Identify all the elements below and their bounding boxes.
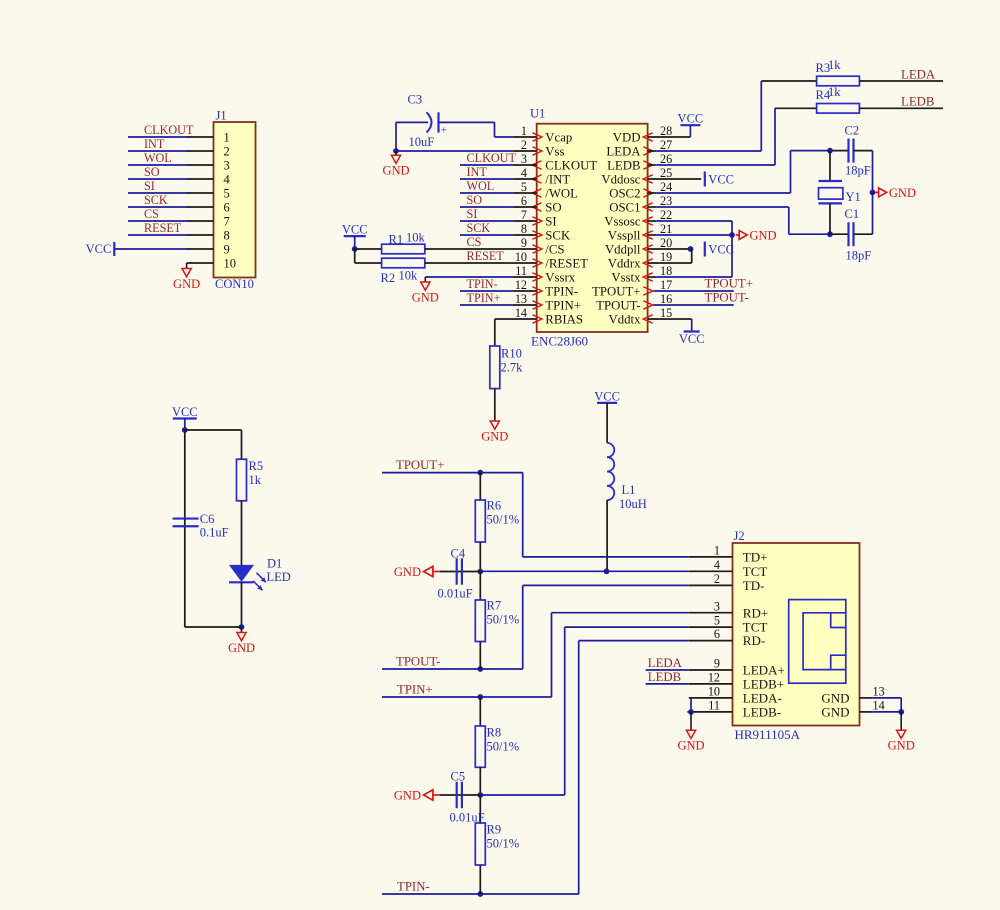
svg-text:26: 26 bbox=[660, 152, 672, 166]
svg-text:50/1%: 50/1% bbox=[487, 513, 520, 527]
svg-text:1: 1 bbox=[714, 544, 720, 558]
svg-text:C6: C6 bbox=[200, 512, 215, 526]
svg-text:GND: GND bbox=[382, 164, 409, 178]
svg-text:TCT: TCT bbox=[743, 564, 768, 579]
svg-text:2.7k: 2.7k bbox=[501, 361, 524, 375]
svg-text:LED: LED bbox=[267, 570, 291, 584]
svg-text:/CS: /CS bbox=[545, 242, 564, 256]
svg-text:24: 24 bbox=[660, 180, 672, 194]
svg-text:25: 25 bbox=[660, 166, 672, 180]
svg-text:R7: R7 bbox=[487, 599, 502, 613]
svg-text:17: 17 bbox=[660, 278, 672, 292]
svg-text:1k: 1k bbox=[828, 58, 841, 72]
svg-text:9: 9 bbox=[224, 242, 230, 256]
svg-text:CLKOUT: CLKOUT bbox=[467, 151, 517, 165]
svg-text:R8: R8 bbox=[487, 726, 502, 740]
svg-text:OSC1: OSC1 bbox=[609, 200, 640, 214]
svg-text:TPOUT-: TPOUT- bbox=[705, 291, 749, 305]
svg-text:22: 22 bbox=[660, 208, 672, 222]
svg-text:Vddpll: Vddpll bbox=[605, 242, 641, 256]
svg-text:SCK: SCK bbox=[467, 221, 491, 235]
svg-text:Vssrx: Vssrx bbox=[545, 270, 575, 284]
svg-text:LEDA: LEDA bbox=[648, 656, 683, 670]
svg-text:2: 2 bbox=[714, 572, 720, 586]
svg-text:R10: R10 bbox=[501, 347, 522, 361]
svg-text:SI: SI bbox=[545, 214, 556, 228]
svg-text:21: 21 bbox=[660, 222, 672, 236]
svg-text:Vssosc: Vssosc bbox=[604, 214, 641, 228]
svg-text:50/1%: 50/1% bbox=[487, 740, 520, 754]
svg-text:+: + bbox=[441, 125, 447, 137]
svg-text:CLKOUT: CLKOUT bbox=[545, 158, 597, 172]
svg-text:WOL: WOL bbox=[467, 179, 495, 193]
svg-text:SO: SO bbox=[545, 200, 561, 214]
svg-text:CON10: CON10 bbox=[215, 277, 254, 291]
svg-text:5: 5 bbox=[714, 614, 720, 628]
svg-text:GND: GND bbox=[394, 789, 421, 803]
svg-text:0.01uF: 0.01uF bbox=[438, 587, 473, 601]
svg-text:TPOUT+: TPOUT+ bbox=[396, 458, 444, 472]
svg-text:LEDA-: LEDA- bbox=[743, 691, 782, 706]
svg-text:SCK: SCK bbox=[545, 228, 571, 242]
svg-text:13: 13 bbox=[515, 292, 527, 306]
svg-text:SO: SO bbox=[467, 193, 483, 207]
svg-text:1k: 1k bbox=[828, 85, 841, 99]
svg-text:TD-: TD- bbox=[743, 578, 765, 593]
svg-text:C2: C2 bbox=[845, 124, 860, 138]
svg-text:SCK: SCK bbox=[144, 193, 168, 207]
svg-text:/RESET: /RESET bbox=[545, 256, 588, 270]
svg-text:50/1%: 50/1% bbox=[487, 837, 520, 851]
svg-text:4: 4 bbox=[521, 166, 527, 180]
svg-text:13: 13 bbox=[873, 685, 885, 699]
svg-text:3: 3 bbox=[714, 599, 720, 613]
svg-text:Vsspll: Vsspll bbox=[608, 228, 641, 242]
svg-text:L1: L1 bbox=[622, 483, 636, 497]
svg-text:GND: GND bbox=[481, 430, 508, 444]
svg-text:12: 12 bbox=[708, 671, 720, 685]
svg-text:Y1: Y1 bbox=[846, 190, 861, 204]
svg-text:J2: J2 bbox=[734, 529, 745, 543]
svg-text:RD-: RD- bbox=[743, 633, 765, 648]
svg-text:RD+: RD+ bbox=[743, 605, 768, 620]
svg-text:Vss: Vss bbox=[545, 144, 564, 158]
svg-text:GND: GND bbox=[821, 691, 849, 706]
svg-text:LEDA+: LEDA+ bbox=[743, 663, 785, 678]
svg-text:TPOUT+: TPOUT+ bbox=[705, 277, 753, 291]
svg-text:8: 8 bbox=[521, 222, 527, 236]
svg-text:OSC2: OSC2 bbox=[609, 186, 640, 200]
svg-text:CS: CS bbox=[467, 235, 482, 249]
svg-text:TPIN-: TPIN- bbox=[397, 880, 430, 894]
svg-text:VCC: VCC bbox=[342, 223, 368, 237]
svg-text:0.1uF: 0.1uF bbox=[200, 526, 229, 540]
svg-text:GND: GND bbox=[889, 186, 916, 200]
svg-text:1k: 1k bbox=[249, 473, 262, 487]
svg-text:Vddosc: Vddosc bbox=[601, 172, 640, 186]
svg-text:7: 7 bbox=[224, 214, 230, 228]
svg-text:9: 9 bbox=[714, 657, 720, 671]
svg-text:VCC: VCC bbox=[86, 242, 112, 256]
svg-text:11: 11 bbox=[515, 264, 527, 278]
svg-text:R5: R5 bbox=[249, 459, 264, 473]
svg-text:5: 5 bbox=[224, 186, 230, 200]
svg-text:7: 7 bbox=[521, 208, 527, 222]
svg-text:11: 11 bbox=[708, 699, 720, 713]
svg-text:VCC: VCC bbox=[708, 243, 734, 257]
svg-text:/INT: /INT bbox=[545, 172, 570, 186]
svg-text:R6: R6 bbox=[487, 499, 502, 513]
svg-text:10uH: 10uH bbox=[619, 497, 647, 511]
svg-text:VDD: VDD bbox=[613, 130, 641, 144]
svg-text:1: 1 bbox=[521, 124, 527, 138]
svg-text:HR911105A: HR911105A bbox=[735, 727, 801, 742]
svg-text:15: 15 bbox=[660, 306, 672, 320]
svg-text:LEDB+: LEDB+ bbox=[743, 677, 784, 692]
svg-text:TD+: TD+ bbox=[743, 550, 768, 565]
svg-text:LEDA: LEDA bbox=[606, 144, 641, 158]
svg-text:RBIAS: RBIAS bbox=[545, 312, 583, 326]
svg-text:TPIN+: TPIN+ bbox=[545, 298, 581, 312]
svg-text:10uF: 10uF bbox=[409, 135, 435, 149]
svg-text:GND: GND bbox=[412, 291, 439, 305]
svg-text:R9: R9 bbox=[487, 823, 502, 837]
svg-text:16: 16 bbox=[660, 292, 672, 306]
svg-text:Vsstx: Vsstx bbox=[611, 270, 641, 284]
svg-text:8: 8 bbox=[224, 228, 230, 242]
svg-text:6: 6 bbox=[224, 200, 230, 214]
svg-text:GND: GND bbox=[888, 739, 915, 753]
svg-text:GND: GND bbox=[228, 641, 255, 655]
svg-text:R1: R1 bbox=[389, 233, 404, 247]
svg-text:27: 27 bbox=[660, 138, 672, 152]
svg-text:WOL: WOL bbox=[144, 151, 172, 165]
svg-text:10k: 10k bbox=[399, 269, 419, 283]
svg-text:23: 23 bbox=[660, 194, 672, 208]
svg-text:19: 19 bbox=[660, 250, 672, 264]
svg-text:TPOUT+: TPOUT+ bbox=[592, 284, 640, 298]
svg-text:10: 10 bbox=[515, 250, 527, 264]
svg-text:C1: C1 bbox=[845, 207, 860, 221]
svg-text:RESET: RESET bbox=[144, 221, 182, 235]
svg-text:4: 4 bbox=[714, 558, 720, 572]
svg-text:D1: D1 bbox=[267, 557, 282, 571]
svg-text:SI: SI bbox=[467, 207, 478, 221]
svg-text:9: 9 bbox=[521, 236, 527, 250]
svg-text:R2: R2 bbox=[381, 271, 396, 285]
svg-text:1: 1 bbox=[224, 130, 230, 144]
svg-text:U1: U1 bbox=[530, 107, 545, 121]
svg-text:LEDB: LEDB bbox=[607, 158, 640, 172]
svg-text:VCC: VCC bbox=[594, 389, 620, 403]
svg-text:2: 2 bbox=[224, 144, 230, 158]
svg-text:0.01uF: 0.01uF bbox=[450, 811, 485, 825]
svg-text:INT: INT bbox=[144, 137, 165, 151]
svg-text:TPIN-: TPIN- bbox=[545, 284, 578, 298]
svg-text:18: 18 bbox=[660, 264, 672, 278]
svg-text:12: 12 bbox=[515, 278, 527, 292]
svg-text:5: 5 bbox=[521, 180, 527, 194]
svg-text:GND: GND bbox=[677, 739, 704, 753]
svg-text:LEDB: LEDB bbox=[901, 95, 934, 109]
svg-text:/WOL: /WOL bbox=[545, 186, 578, 200]
svg-text:VCC: VCC bbox=[678, 112, 704, 126]
svg-text:C4: C4 bbox=[451, 547, 466, 561]
svg-text:GND: GND bbox=[750, 229, 777, 243]
svg-text:VCC: VCC bbox=[708, 173, 734, 187]
svg-text:ENC28J60: ENC28J60 bbox=[531, 334, 588, 349]
svg-text:C5: C5 bbox=[451, 770, 466, 784]
svg-text:Vcap: Vcap bbox=[545, 130, 572, 144]
svg-text:Vddrx: Vddrx bbox=[608, 256, 641, 270]
svg-text:J1: J1 bbox=[216, 109, 227, 123]
svg-text:4: 4 bbox=[224, 172, 231, 186]
svg-text:TPIN+: TPIN+ bbox=[467, 291, 501, 305]
svg-text:28: 28 bbox=[660, 124, 672, 138]
svg-text:10k: 10k bbox=[406, 231, 426, 245]
svg-text:20: 20 bbox=[660, 236, 672, 250]
svg-text:18pF: 18pF bbox=[846, 249, 872, 263]
svg-text:50/1%: 50/1% bbox=[487, 613, 520, 627]
svg-text:SO: SO bbox=[144, 165, 160, 179]
svg-text:GND: GND bbox=[173, 277, 200, 291]
svg-text:RESET: RESET bbox=[467, 249, 505, 263]
svg-text:CLKOUT: CLKOUT bbox=[144, 123, 194, 137]
svg-text:10: 10 bbox=[224, 256, 237, 270]
svg-text:TPOUT-: TPOUT- bbox=[396, 655, 440, 669]
svg-text:Vddtx: Vddtx bbox=[609, 312, 642, 326]
svg-text:3: 3 bbox=[521, 152, 527, 166]
svg-text:3: 3 bbox=[224, 158, 230, 172]
svg-text:SI: SI bbox=[144, 179, 155, 193]
svg-text:14: 14 bbox=[873, 699, 885, 713]
svg-text:VCC: VCC bbox=[172, 405, 198, 419]
svg-text:10: 10 bbox=[708, 685, 720, 699]
svg-text:14: 14 bbox=[515, 306, 527, 320]
svg-text:18pF: 18pF bbox=[845, 164, 871, 178]
svg-text:C3: C3 bbox=[408, 93, 423, 107]
svg-text:CS: CS bbox=[144, 207, 159, 221]
svg-text:LEDB: LEDB bbox=[648, 670, 681, 684]
svg-text:GND: GND bbox=[394, 565, 421, 579]
svg-text:INT: INT bbox=[467, 165, 488, 179]
svg-text:6: 6 bbox=[521, 194, 527, 208]
svg-text:VCC: VCC bbox=[679, 332, 705, 346]
svg-text:TPIN+: TPIN+ bbox=[397, 683, 433, 697]
svg-text:TPOUT-: TPOUT- bbox=[596, 298, 640, 312]
svg-text:2: 2 bbox=[521, 138, 527, 152]
svg-text:LEDB-: LEDB- bbox=[743, 705, 781, 720]
svg-text:TPIN-: TPIN- bbox=[467, 277, 498, 291]
svg-text:6: 6 bbox=[714, 627, 720, 641]
svg-text:LEDA: LEDA bbox=[901, 68, 936, 82]
svg-text:GND: GND bbox=[821, 705, 849, 720]
